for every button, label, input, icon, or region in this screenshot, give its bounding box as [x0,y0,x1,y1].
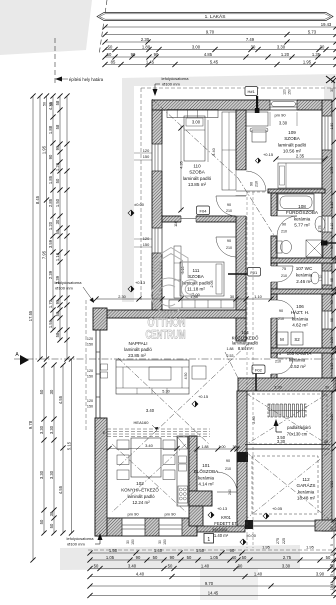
bed room111 [180,262,224,296]
roof diagonal kitchen [112,444,186,512]
svg-text:3.30: 3.30 [49,470,54,479]
svg-text:F02: F02 [255,367,263,372]
svg-text:4.14 m²: 4.14 m² [198,482,214,487]
chimney H1 flue [256,96,258,113]
closet room110 right wall [222,112,236,190]
window right wc [322,271,331,285]
svg-text:50: 50 [168,563,173,568]
svg-text:5.15: 5.15 [66,441,71,450]
dimension row top 4 [105,49,336,51]
electrical box on right wall [321,241,328,246]
bed room109 east [278,163,322,188]
svg-text:90: 90 [230,548,235,553]
tv cabinet nappali [192,366,206,379]
svg-text:2.75: 2.75 [318,226,322,233]
watermark OC logo [151,248,196,314]
front door opening [211,491,213,506]
window left W1 120/150 [152,144,163,171]
wall between room110 and room111 [162,216,246,222]
section line A-A [14,358,336,360]
dimension ticks left wall line [66,96,68,359]
door room110 opening [236,196,247,216]
dimension chain left lower B [53,365,55,533]
svg-text:50: 50 [153,555,158,560]
svg-text:50: 50 [39,389,44,394]
chairs kitchen left [117,440,129,450]
svg-text:1.85: 1.85 [48,175,53,184]
header box 1. LAKAS [97,13,333,21]
svg-text:150: 150 [87,375,93,379]
svg-text:40: 40 [232,555,237,560]
svg-text:90: 90 [48,154,53,159]
svg-text:1.20: 1.20 [55,162,60,171]
svg-text:FÜRDŐSZOBA: FÜRDŐSZOBA [286,209,319,215]
svg-text:3.40: 3.40 [146,408,155,413]
svg-text:210: 210 [281,229,287,233]
wall wc west [271,263,277,289]
svg-text:5: 5 [330,554,334,556]
svg-text:±0.00: ±0.00 [134,202,145,207]
dashed opening corridor top [247,191,271,193]
porch wall block [189,491,212,506]
svg-text:3.30: 3.30 [39,470,44,479]
washing machine M [276,332,288,345]
svg-text:2.35: 2.35 [296,153,305,158]
roof diagonal nappali X [119,343,249,466]
svg-text:1.10: 1.10 [319,275,323,282]
svg-text:2.05: 2.05 [210,281,214,288]
scissors mark top right [326,76,335,83]
svg-text:laminált padló: laminált padló [124,347,152,352]
svg-text:58: 58 [55,100,60,105]
svg-text:SZOBA: SZOBA [189,170,206,175]
dimension row bottom 3 [90,568,336,570]
wall nappali north [107,310,246,318]
wall bathroom west upper [271,193,277,216]
dimension row top 3 [105,41,336,43]
kitchen fridge [178,437,188,449]
svg-text:106: 106 [296,304,304,309]
svg-text:30: 30 [238,563,243,568]
svg-text:2.39: 2.39 [48,270,53,279]
door wc opening [271,266,278,282]
svg-text:225: 225 [282,538,286,544]
svg-text:1.88: 1.88 [48,125,53,134]
wall kamra west [271,353,277,379]
garage dashed inner rect [252,456,318,514]
svg-text:1.00: 1.00 [219,445,226,449]
svg-text:18.48 m²: 18.48 m² [297,496,316,501]
svg-text:KONYHA-ÉTKEZŐ: KONYHA-ÉTKEZŐ [121,487,159,492]
svg-text:1.55: 1.55 [48,319,53,328]
svg-text:30: 30 [251,44,256,49]
dimension row bottom 5 [90,585,336,587]
svg-text:3.80: 3.80 [330,481,334,488]
svg-text:1.50: 1.50 [196,548,205,553]
window right room109 [322,116,331,150]
wall exterior right [322,100,332,531]
dimension chain left lower A [43,365,45,533]
svg-text:80: 80 [330,526,334,530]
svg-text:1.40: 1.40 [154,548,163,553]
porch wall lower [189,506,203,526]
svg-text:110: 110 [193,164,201,169]
svg-text:105 KAMRA: 105 KAMRA [287,351,312,356]
terrain gray band left [122,78,134,302]
svg-text:30: 30 [330,88,334,92]
window south kitchen 1 [122,518,145,535]
wall exterior top [152,100,331,110]
svg-text:30: 30 [126,540,130,544]
attic ladder arrow [274,419,279,426]
svg-text:1.30: 1.30 [330,363,334,370]
svg-text:K#01: K#01 [221,515,231,520]
roof ridge diagonal from top-left corner [152,99,238,178]
wall corridor south [238,378,336,391]
dimension row top 1 [105,26,336,28]
svg-text:1.10: 1.10 [254,294,262,299]
window right hazt [322,311,331,329]
svg-text:kerámia: kerámia [198,475,215,480]
svg-text:1.95: 1.95 [303,59,312,64]
wall kitchen west [95,418,107,536]
svg-text:90: 90 [250,182,254,186]
svg-text:90: 90 [131,52,136,57]
svg-text:FEDETT ET.: FEDETT ET. [214,521,237,526]
svg-text:120: 120 [283,89,287,95]
svg-text:1.40: 1.40 [254,571,263,576]
svg-text:30: 30 [320,44,325,49]
svg-text:4.50: 4.50 [184,373,188,380]
svg-text:4.62 m²: 4.62 m² [292,323,308,328]
dimension row bottom 4 [90,576,336,578]
svg-text:5: 5 [330,564,334,566]
svg-text:Ø100 mm: Ø100 mm [162,81,180,86]
svg-text:H#1: H#1 [248,89,256,94]
door leaf bathroom [277,215,297,217]
door hazt opening [271,300,278,318]
svg-text:120: 120 [143,148,150,153]
svg-text:90: 90 [170,555,175,560]
bay glass wall nappali [95,330,97,419]
svg-text:5.45: 5.45 [210,59,219,64]
svg-text:210: 210 [226,209,232,213]
svg-text:M: M [280,337,284,342]
door bathroom opening [271,216,278,236]
svg-text:50: 50 [108,44,113,49]
svg-text:58: 58 [55,332,60,337]
svg-text:120: 120 [87,369,93,373]
wall exterior south kitchen [95,518,197,536]
svg-text:95: 95 [55,299,60,304]
svg-text:1.50: 1.50 [55,198,60,207]
svg-text:240: 240 [228,489,232,495]
svg-text:7.95: 7.95 [41,250,46,259]
svg-text:9.78: 9.78 [28,420,33,429]
svg-text:2.52 m²: 2.52 m² [290,364,306,369]
garage door opening [253,520,315,522]
wall wc south [271,289,336,294]
building site boundary dashed line [54,38,56,86]
dimension row bottom 2 [90,559,336,561]
wall hazt south [271,348,336,353]
door leaf room109 [246,190,266,192]
svg-text:95: 95 [55,145,60,150]
kitchen counter [177,436,188,506]
svg-text:3.30: 3.30 [39,425,44,434]
svg-text:10.56 m²: 10.56 m² [283,149,302,154]
svg-text:95: 95 [330,318,334,322]
svg-text:19.43: 19.43 [321,22,332,27]
svg-text:2.75: 2.75 [330,167,334,174]
svg-text:50: 50 [43,102,47,106]
svg-text:90: 90 [136,555,141,560]
svg-text:11.18 m²: 11.18 m² [187,287,205,292]
svg-text:9.70: 9.70 [205,581,214,586]
svg-text:150: 150 [131,539,135,545]
svg-text:HEA160: HEA160 [134,420,150,425]
svg-text:kerámia: kerámia [289,357,306,362]
roof diagonal corridor [225,352,238,378]
svg-text:laminált padló: laminált padló [183,176,212,181]
svg-text:90: 90 [226,459,230,463]
svg-text:8.84 m²: 8.84 m² [238,346,253,351]
svg-text:58: 58 [55,124,60,129]
attic strip dashed rect [247,394,327,444]
svg-text:GARÁZS: GARÁZS [297,482,316,488]
svg-text:17.55: 17.55 [28,310,33,321]
svg-text:7.49: 7.49 [246,37,255,42]
svg-text:1.00: 1.00 [330,337,334,344]
wardrobe row room111 bottom [169,300,234,308]
svg-text:110: 110 [174,221,178,227]
svg-text:90: 90 [154,52,159,57]
terrain gray band bottom [60,545,300,570]
door arc room111 from corridor [216,236,236,238]
svg-text:NAPPALI: NAPPALI [128,341,147,346]
svg-text:1.50: 1.50 [109,548,118,553]
svg-text:150: 150 [143,154,150,159]
terrain gray patch bottom-center [200,568,258,600]
wall exterior left upper [152,110,162,310]
svg-text:1.10: 1.10 [330,202,334,209]
svg-text:5.77 m²: 5.77 m² [294,223,310,228]
svg-text:85: 85 [111,59,116,64]
svg-text:50: 50 [39,519,44,524]
window top wall room109 pm90 [270,100,297,111]
svg-text:1.70: 1.70 [48,299,53,308]
svg-text:50: 50 [187,555,192,560]
svg-text:4.35: 4.35 [180,161,184,168]
svg-text:104: 104 [241,330,249,335]
svg-text:+0.15: +0.15 [198,394,209,399]
dimension chain left lower 4.55 [62,365,64,533]
arrow epitesi hely hatara [55,77,62,82]
wall pier bay corner [93,308,107,330]
svg-text:±0.00: ±0.00 [246,533,257,538]
window south kitchen 2 [159,518,182,535]
property dashed line top [99,0,107,55]
svg-text:30: 30 [158,540,162,544]
svg-text:kerámia: kerámia [296,272,313,277]
svg-text:5: 5 [330,574,334,576]
svg-text:150: 150 [143,242,150,247]
label box F02 [252,365,265,374]
wall bathroom south [271,258,336,263]
wall hazt west [271,294,277,348]
svg-text:120: 120 [87,399,93,403]
svg-text:90: 90 [227,203,231,207]
svg-text:F01: F01 [250,270,258,275]
svg-text:3.40: 3.40 [128,563,137,568]
svg-text:3.30: 3.30 [282,563,291,568]
svg-text:210: 210 [226,246,232,250]
svg-text:1. LAKÁS: 1. LAKÁS [205,13,226,20]
white gap above building [134,86,324,100]
svg-text:S2: S2 [294,337,300,342]
svg-text:kerámia: kerámia [213,527,229,532]
svg-text:3.40: 3.40 [145,443,154,448]
svg-text:3.00: 3.00 [192,119,201,124]
wardrobe room111 left [174,246,181,298]
svg-text:SZOBA: SZOBA [284,136,301,141]
svg-text:+0.15: +0.15 [263,152,274,157]
svg-text:150: 150 [87,343,93,347]
svg-text:+0.13: +0.13 [135,280,146,285]
svg-text:2.85: 2.85 [48,198,53,207]
roof eave dashed line left [140,88,142,300]
svg-text:90: 90 [282,223,286,227]
garage diagonals [246,452,329,519]
svg-text:120: 120 [143,236,150,241]
dim line 3.40 room110 [207,120,209,162]
svg-text:90: 90 [227,239,231,243]
wall garage west [237,391,247,527]
svg-text:150: 150 [87,405,93,409]
svg-text:107 WC: 107 WC [296,266,313,271]
corridor dashed lines [246,192,248,548]
door room109 opening [236,170,247,191]
dimension chain left lower 5.15 [71,359,73,533]
svg-text:padlásfeljáró: padlásfeljáró [287,425,311,430]
terrain gray band top [122,74,336,100]
dimension line entrance 1.88/1.00/30 [197,448,237,450]
svg-text:1.05: 1.05 [210,555,219,560]
wall garage north thin [245,444,330,446]
terrain gray top-left [0,0,92,55]
dining table kitchen [131,438,161,477]
svg-text:95: 95 [330,278,334,282]
svg-text:30: 30 [49,389,54,394]
label box H1 [245,87,258,96]
svg-text:ELŐSZOBA: ELŐSZOBA [194,468,218,474]
svg-text:2.75: 2.75 [283,555,292,560]
svg-text:3.10: 3.10 [181,267,185,274]
svg-text:30: 30 [55,219,60,224]
svg-text:laminált padló: laminált padló [278,142,307,147]
wall garage south west jamb [245,520,253,529]
svg-text:4.40: 4.40 [136,571,145,576]
wall garage south east corner [315,520,336,531]
svg-text:1.88: 1.88 [227,347,234,351]
svg-text:építési hely határa: építési hely határa [69,77,104,82]
window right bathroom [322,216,331,232]
plant boxes on glass wall [101,364,108,370]
bed room110 [184,116,205,161]
wall corridor west [236,196,246,341]
svg-text:Ø100 mm: Ø100 mm [67,541,85,546]
svg-text:19.43: 19.43 [330,582,334,591]
svg-text:5.73: 5.73 [308,29,317,34]
svg-text:120: 120 [87,337,93,341]
toilet bathroom [276,241,282,253]
svg-text:30: 30 [49,511,54,516]
svg-text:108: 108 [298,204,306,209]
roof eave dashed line bottom [88,549,336,551]
svg-text:101: 101 [202,463,210,468]
svg-text:30: 30 [233,445,237,449]
svg-text:1.80: 1.80 [142,44,151,49]
svg-text:1.45: 1.45 [146,59,155,64]
svg-text:SZOBA: SZOBA [188,274,205,279]
kitchen stove [178,486,188,503]
dimension chain left 17.55 [32,96,34,560]
svg-text:2.30: 2.30 [141,37,150,42]
svg-text:2.30: 2.30 [118,294,126,299]
svg-text:150: 150 [163,539,167,545]
coffee table nappali [149,367,171,380]
svg-text:laminált padló: laminált padló [127,494,155,499]
dimension row top 6 [105,64,336,66]
svg-text:1.10: 1.10 [330,223,334,230]
window left W2 120/150 [152,228,163,253]
svg-text:3.30: 3.30 [274,385,283,390]
chair room109 [252,130,266,142]
svg-text:1.95: 1.95 [41,145,46,154]
label box F01 [248,268,261,277]
svg-text:30: 30 [324,440,328,444]
door kamra opening [271,358,278,374]
svg-text:111: 111 [193,268,200,273]
shower bathroom [306,240,323,257]
svg-text:13.85 m²: 13.85 m² [188,182,207,187]
svg-text:3.59: 3.59 [48,239,53,248]
svg-text:kerámia: kerámia [294,216,311,221]
svg-text:+0.13: +0.13 [217,506,228,511]
kitchen sink [179,456,187,463]
dryer S2 [291,332,303,345]
svg-text:pm 90: pm 90 [164,511,176,516]
svg-text:+0.05: +0.05 [272,506,283,511]
wall room109 south thin [268,189,325,193]
dimension strip right edge [333,80,335,592]
svg-text:210: 210 [255,181,259,187]
svg-text:30: 30 [325,386,329,390]
svg-text:12.24 m²: 12.24 m² [132,500,150,505]
svg-text:1.10: 1.10 [55,252,60,261]
svg-text:1.95: 1.95 [306,545,315,550]
attic ladder padlasfeljaro [268,404,306,417]
closet room110 top [167,110,218,118]
svg-text:75: 75 [277,352,281,356]
dimension line above nappali wall [96,298,271,300]
svg-text:210: 210 [275,359,281,363]
svg-text:150: 150 [288,89,292,95]
svg-text:1: 1 [207,537,210,543]
svg-text:2.39: 2.39 [55,275,60,284]
svg-text:2.46 m²: 2.46 m² [296,279,312,284]
svg-text:50: 50 [107,52,112,57]
